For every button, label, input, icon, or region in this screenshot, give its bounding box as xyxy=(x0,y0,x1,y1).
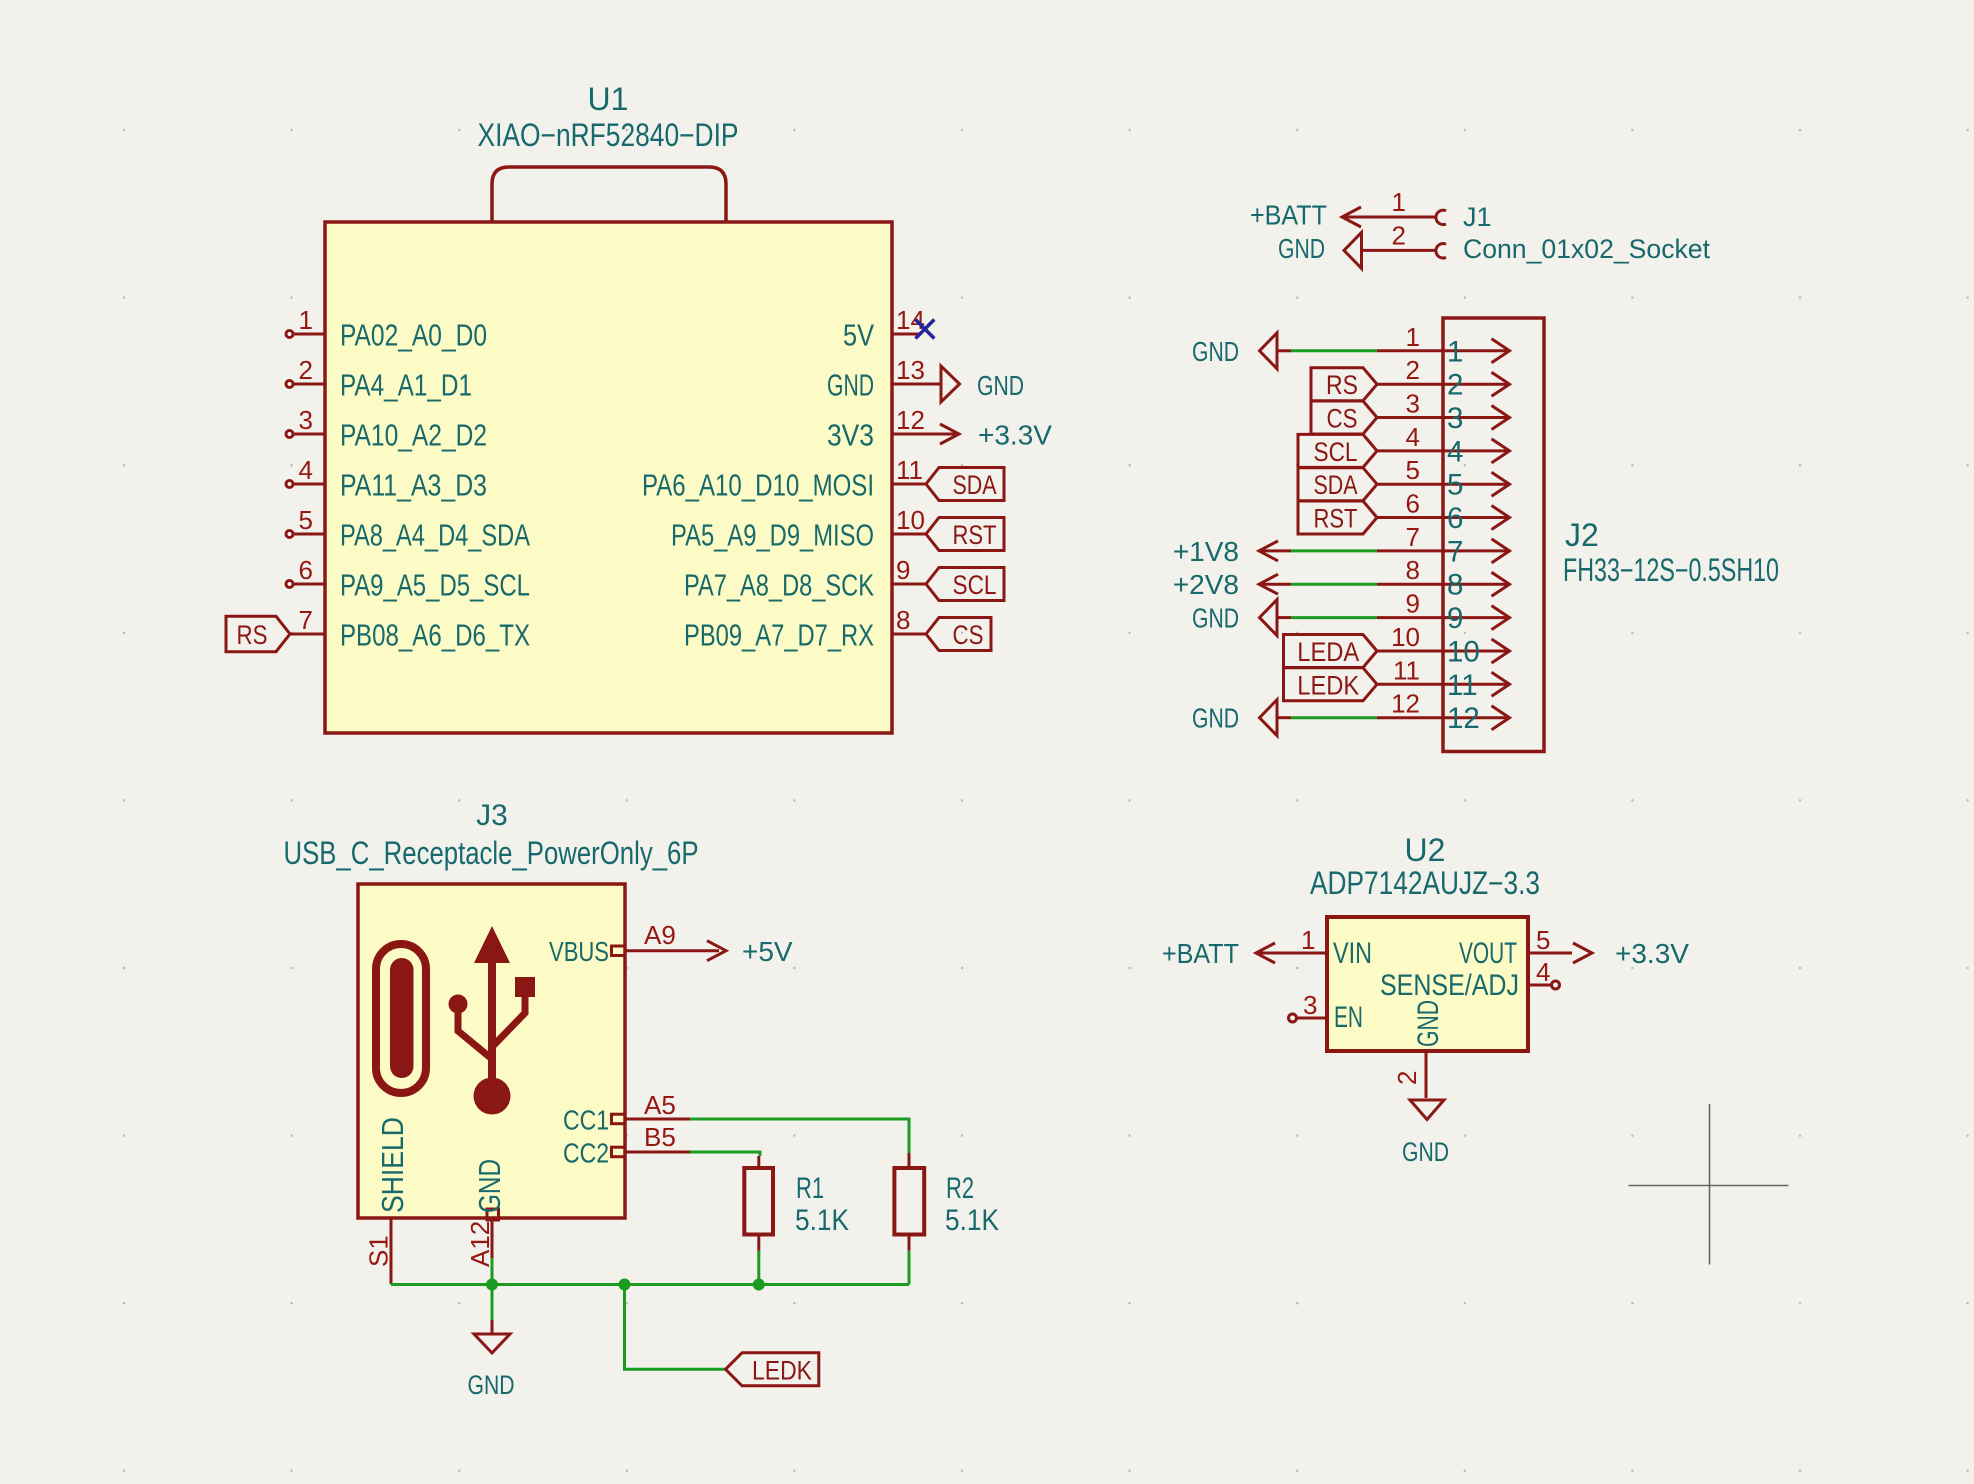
global label SCL at J2 pin 4 xyxy=(1298,434,1377,467)
J3 pin A12 GND xyxy=(465,1159,507,1267)
svg-text:10: 10 xyxy=(896,505,925,535)
global label LEDK xyxy=(726,1353,819,1386)
svg-text:2: 2 xyxy=(1392,221,1406,251)
svg-text:5.1K: 5.1K xyxy=(795,1204,849,1237)
svg-text:9: 9 xyxy=(1447,602,1463,635)
svg-text:SCL: SCL xyxy=(1314,437,1358,467)
U1 pin 14 5V xyxy=(843,305,934,353)
svg-text:5: 5 xyxy=(299,505,313,535)
svg-text:8: 8 xyxy=(1447,569,1463,602)
wire R2 to bus xyxy=(908,1251,911,1285)
svg-text:10: 10 xyxy=(1391,622,1420,652)
svg-text:3V3: 3V3 xyxy=(827,418,874,453)
wire J2 pin 9 xyxy=(1277,616,1377,619)
svg-text:R1: R1 xyxy=(796,1172,824,1205)
J3 pin S1 SHIELD xyxy=(364,1117,411,1285)
J2 pin 12 (GND) xyxy=(1377,689,1510,736)
sheet crosshair mark xyxy=(1629,1185,1789,1187)
U1 pin 2 PA4_A1_D1 xyxy=(286,355,472,403)
svg-text:PA02_A0_D0: PA02_A0_D0 xyxy=(340,318,487,353)
svg-text:U2: U2 xyxy=(1405,832,1446,868)
svg-text:RST: RST xyxy=(953,520,997,550)
svg-text:+2V8: +2V8 xyxy=(1173,569,1239,600)
J2 pin 9 (GND) xyxy=(1377,589,1510,636)
svg-text:2: 2 xyxy=(1447,369,1463,402)
global label RS at J2 pin 2 xyxy=(1311,368,1377,401)
svg-text:5: 5 xyxy=(1447,469,1463,502)
svg-text:1: 1 xyxy=(299,305,313,335)
svg-text:PA6_A10_D10_MOSI: PA6_A10_D10_MOSI xyxy=(642,468,874,503)
wire R1 to bus xyxy=(757,1251,760,1285)
ground GND below J3 xyxy=(468,1320,515,1400)
svg-text:5V: 5V xyxy=(843,318,874,353)
junction at R1 xyxy=(753,1279,765,1291)
svg-text:SDA: SDA xyxy=(1314,470,1358,500)
svg-text:GND: GND xyxy=(472,1159,507,1213)
svg-text:12: 12 xyxy=(896,405,925,435)
resistor R1 5.1K xyxy=(744,1156,849,1251)
svg-text:CC1: CC1 xyxy=(563,1105,609,1136)
U2 pin 4 SENSE/ADJ xyxy=(1380,957,1560,1002)
wire J2 pin 12 xyxy=(1277,716,1377,719)
svg-text:LEDK: LEDK xyxy=(752,1355,812,1385)
J3 pin A9 VBUS xyxy=(549,920,719,967)
svg-text:2: 2 xyxy=(299,355,313,385)
svg-text:9: 9 xyxy=(1406,589,1420,619)
svg-text:Conn_01x02_Socket: Conn_01x02_Socket xyxy=(1463,234,1710,264)
svg-text:3: 3 xyxy=(1303,990,1317,1020)
global label LEDA at J2 pin 10 xyxy=(1284,635,1378,668)
svg-text:SHIELD: SHIELD xyxy=(375,1117,410,1213)
U2 pin 1 VIN xyxy=(1256,925,1372,970)
U1 pin 12 3V3 xyxy=(827,405,1052,453)
svg-text:VBUS: VBUS xyxy=(549,936,609,967)
svg-text:9: 9 xyxy=(896,555,910,585)
U1 pin 7 PB08_A6_D6_TX xyxy=(290,605,530,653)
global label RS at U1 pin 7 xyxy=(226,616,290,651)
svg-text:LEDA: LEDA xyxy=(1297,637,1359,667)
svg-text:PB09_A7_D7_RX: PB09_A7_D7_RX xyxy=(684,618,874,653)
svg-text:1: 1 xyxy=(1301,925,1315,955)
IC U1 XIAO-nRF52840-DIP body xyxy=(325,222,892,733)
svg-text:SDA: SDA xyxy=(953,470,997,500)
J2 pin 7 (+1V8) xyxy=(1377,522,1510,569)
J2 pin 5 (SDA) xyxy=(1377,455,1510,502)
svg-text:A5: A5 xyxy=(644,1090,676,1120)
svg-text:S1: S1 xyxy=(364,1235,394,1267)
ground GND at J2 pin 1 xyxy=(1192,333,1277,369)
J3 pin A5 CC1 xyxy=(563,1090,690,1136)
global label LEDK at J2 pin 11 xyxy=(1284,668,1378,701)
svg-text:+3.3V: +3.3V xyxy=(978,420,1052,451)
U1 pin 9 PA7_A8_D8_SCK xyxy=(684,555,1004,603)
svg-text:RST: RST xyxy=(1314,504,1358,534)
svg-text:SENSE/ADJ: SENSE/ADJ xyxy=(1380,969,1519,1002)
J2 pin 11 (LEDK) xyxy=(1377,655,1510,702)
svg-text:XIAO−nRF52840−DIP: XIAO−nRF52840−DIP xyxy=(478,117,739,153)
svg-text:A9: A9 xyxy=(644,920,676,950)
svg-text:+BATT: +BATT xyxy=(1162,938,1239,969)
global label RST at J2 pin 6 xyxy=(1298,501,1377,534)
svg-text:GND: GND xyxy=(1402,1137,1449,1167)
svg-text:+3.3V: +3.3V xyxy=(1615,938,1689,969)
svg-text:7: 7 xyxy=(299,605,313,635)
U1 pin 1 PA02_A0_D0 xyxy=(286,305,487,353)
J2 pin 3 (CS) xyxy=(1377,389,1510,436)
power +BATT at U2 xyxy=(1162,938,1275,969)
svg-text:GND: GND xyxy=(1192,603,1239,634)
svg-text:RS: RS xyxy=(1326,370,1358,400)
USB trident icon xyxy=(449,926,536,1115)
J1 pin 1 socket xyxy=(1342,187,1446,225)
svg-text:B5: B5 xyxy=(644,1122,676,1152)
USB-C connector icon xyxy=(376,944,426,1093)
svg-text:5.1K: 5.1K xyxy=(945,1204,999,1237)
svg-text:11: 11 xyxy=(1393,655,1420,685)
svg-text:14: 14 xyxy=(896,305,925,335)
svg-text:PA10_A2_D2: PA10_A2_D2 xyxy=(340,418,487,453)
wire J2 pin 1 xyxy=(1277,349,1377,352)
svg-text:10: 10 xyxy=(1447,636,1480,669)
svg-text:1: 1 xyxy=(1447,335,1463,368)
svg-text:J3: J3 xyxy=(476,799,508,832)
wire A12 down to GND xyxy=(491,1258,494,1320)
U2 pin 3 EN xyxy=(1289,990,1364,1034)
svg-text:5: 5 xyxy=(1406,455,1420,485)
J2 pin 6 (RST) xyxy=(1377,489,1510,536)
connector J2 FH33-12S-0.5SH10 body xyxy=(1443,318,1544,752)
svg-text:GND: GND xyxy=(1278,233,1325,264)
svg-text:PA11_A3_D3: PA11_A3_D3 xyxy=(340,468,487,503)
wire S1 down to bus xyxy=(390,1283,393,1285)
wire ground bus xyxy=(391,1283,909,1286)
svg-text:3: 3 xyxy=(1447,402,1463,435)
svg-text:+BATT: +BATT xyxy=(1250,200,1327,231)
svg-text:GND: GND xyxy=(827,368,874,403)
svg-text:5: 5 xyxy=(1536,925,1550,955)
svg-text:11: 11 xyxy=(896,455,923,485)
global label CS at J2 pin 3 xyxy=(1311,401,1377,434)
svg-text:EN: EN xyxy=(1334,1001,1363,1034)
svg-text:LEDK: LEDK xyxy=(1297,670,1359,700)
svg-text:CC2: CC2 xyxy=(563,1138,609,1169)
svg-text:7: 7 xyxy=(1447,535,1463,568)
J2 pin 10 (LEDA) xyxy=(1377,622,1510,669)
svg-text:4: 4 xyxy=(1536,957,1550,987)
wire CC2 to R1 xyxy=(690,1152,760,1156)
wire CC1 to R2 xyxy=(690,1119,909,1153)
svg-text:6: 6 xyxy=(299,555,313,585)
svg-text:GND: GND xyxy=(468,1370,515,1400)
wire J2 pin 7 xyxy=(1259,549,1377,552)
svg-text:VOUT: VOUT xyxy=(1459,937,1517,970)
ground GND below U2 xyxy=(1402,1100,1449,1167)
svg-text:RS: RS xyxy=(237,620,268,650)
svg-text:11: 11 xyxy=(1447,669,1478,702)
power +3.3V at U2 xyxy=(1573,938,1689,969)
svg-text:4: 4 xyxy=(1406,422,1420,452)
svg-text:SCL: SCL xyxy=(953,570,997,600)
svg-text:4: 4 xyxy=(1447,435,1463,468)
U1 pin 4 PA11_A3_D3 xyxy=(286,455,487,503)
J3 pin B5 CC2 xyxy=(563,1122,690,1169)
svg-text:3: 3 xyxy=(299,405,313,435)
wire J2 pin 8 xyxy=(1259,583,1377,586)
J2 pin 1 (GND) xyxy=(1377,322,1510,369)
junction at LEDK branch xyxy=(619,1279,631,1291)
resistor R2 5.1K xyxy=(894,1153,999,1251)
U1 pin 11 PA6_A10_D10_MOSI xyxy=(642,455,1004,503)
power +5V at VBUS xyxy=(707,936,793,967)
svg-text:1: 1 xyxy=(1406,322,1420,352)
svg-text:13: 13 xyxy=(896,355,925,385)
svg-text:3: 3 xyxy=(1406,389,1420,419)
svg-text:CS: CS xyxy=(1327,404,1358,434)
svg-text:12: 12 xyxy=(1447,702,1480,735)
svg-text:USB_C_Receptacle_PowerOnly_6P: USB_C_Receptacle_PowerOnly_6P xyxy=(284,835,699,871)
svg-text:PA4_A1_D1: PA4_A1_D1 xyxy=(340,368,472,403)
svg-text:8: 8 xyxy=(1406,555,1420,585)
ground GND at J1 xyxy=(1278,232,1362,268)
svg-text:+5V: +5V xyxy=(742,936,793,967)
U1 pin 3 PA10_A2_D2 xyxy=(286,405,487,453)
J2 pin 2 (RS) xyxy=(1377,355,1510,402)
J1 pin 2 socket xyxy=(1360,221,1446,259)
U1 pin 5 PA8_A4_D4_SDA xyxy=(286,505,530,553)
junction at A12 xyxy=(486,1279,498,1291)
U1 pin 8 PB09_A7_D7_RX xyxy=(684,605,991,653)
svg-text:PA7_A8_D8_SCK: PA7_A8_D8_SCK xyxy=(684,568,874,603)
svg-text:PA8_A4_D4_SDA: PA8_A4_D4_SDA xyxy=(340,518,530,553)
svg-text:8: 8 xyxy=(896,605,910,635)
svg-text:VIN: VIN xyxy=(1333,937,1372,970)
wire to LEDK label xyxy=(625,1285,726,1370)
global label SDA at J2 pin 5 xyxy=(1298,468,1377,501)
U1 pin 13 GND xyxy=(827,355,1024,403)
ground GND at J2 pin 12 xyxy=(1192,700,1277,736)
svg-text:R2: R2 xyxy=(946,1172,974,1205)
J3 body xyxy=(358,884,625,1218)
power +2V8 at J2 pin 8 xyxy=(1173,569,1278,600)
svg-text:6: 6 xyxy=(1447,502,1463,535)
svg-text:2: 2 xyxy=(1392,1071,1422,1085)
svg-text:U1: U1 xyxy=(588,81,629,117)
svg-text:PA5_A9_D9_MISO: PA5_A9_D9_MISO xyxy=(671,518,874,553)
svg-text:ADP7142AUJZ−3.3: ADP7142AUJZ−3.3 xyxy=(1310,865,1540,901)
svg-text:PB08_A6_D6_TX: PB08_A6_D6_TX xyxy=(340,618,530,653)
svg-text:GND: GND xyxy=(1412,1000,1445,1047)
svg-text:+1V8: +1V8 xyxy=(1173,536,1239,567)
svg-text:J2: J2 xyxy=(1565,517,1599,553)
U1 pin 6 PA9_A5_D5_SCL xyxy=(286,555,530,603)
svg-text:6: 6 xyxy=(1406,489,1420,519)
svg-text:CS: CS xyxy=(953,620,984,650)
svg-text:GND: GND xyxy=(1192,703,1239,734)
U2 body xyxy=(1327,917,1528,1051)
svg-text:2: 2 xyxy=(1406,355,1420,385)
svg-text:PA9_A5_D5_SCL: PA9_A5_D5_SCL xyxy=(340,568,530,603)
power +1V8 at J2 pin 7 xyxy=(1173,536,1278,567)
U2 pin 2 GND xyxy=(1392,1000,1445,1098)
U2 pin 5 VOUT xyxy=(1459,925,1572,970)
svg-text:FH33−12S−0.5SH10: FH33−12S−0.5SH10 xyxy=(1563,552,1779,588)
U1 pin 10 PA5_A9_D9_MISO xyxy=(671,505,1004,553)
J2 pin 8 (+2V8) xyxy=(1377,555,1510,602)
svg-text:12: 12 xyxy=(1391,689,1420,719)
svg-text:GND: GND xyxy=(1192,336,1239,367)
power +BATT at J1 xyxy=(1250,200,1361,231)
svg-text:1: 1 xyxy=(1392,187,1406,217)
J2 pin 4 (SCL) xyxy=(1377,422,1510,469)
svg-text:GND: GND xyxy=(977,370,1024,401)
svg-text:4: 4 xyxy=(299,455,313,485)
ground GND at J2 pin 9 xyxy=(1192,600,1277,636)
svg-text:J1: J1 xyxy=(1463,202,1492,232)
svg-text:7: 7 xyxy=(1406,522,1420,552)
